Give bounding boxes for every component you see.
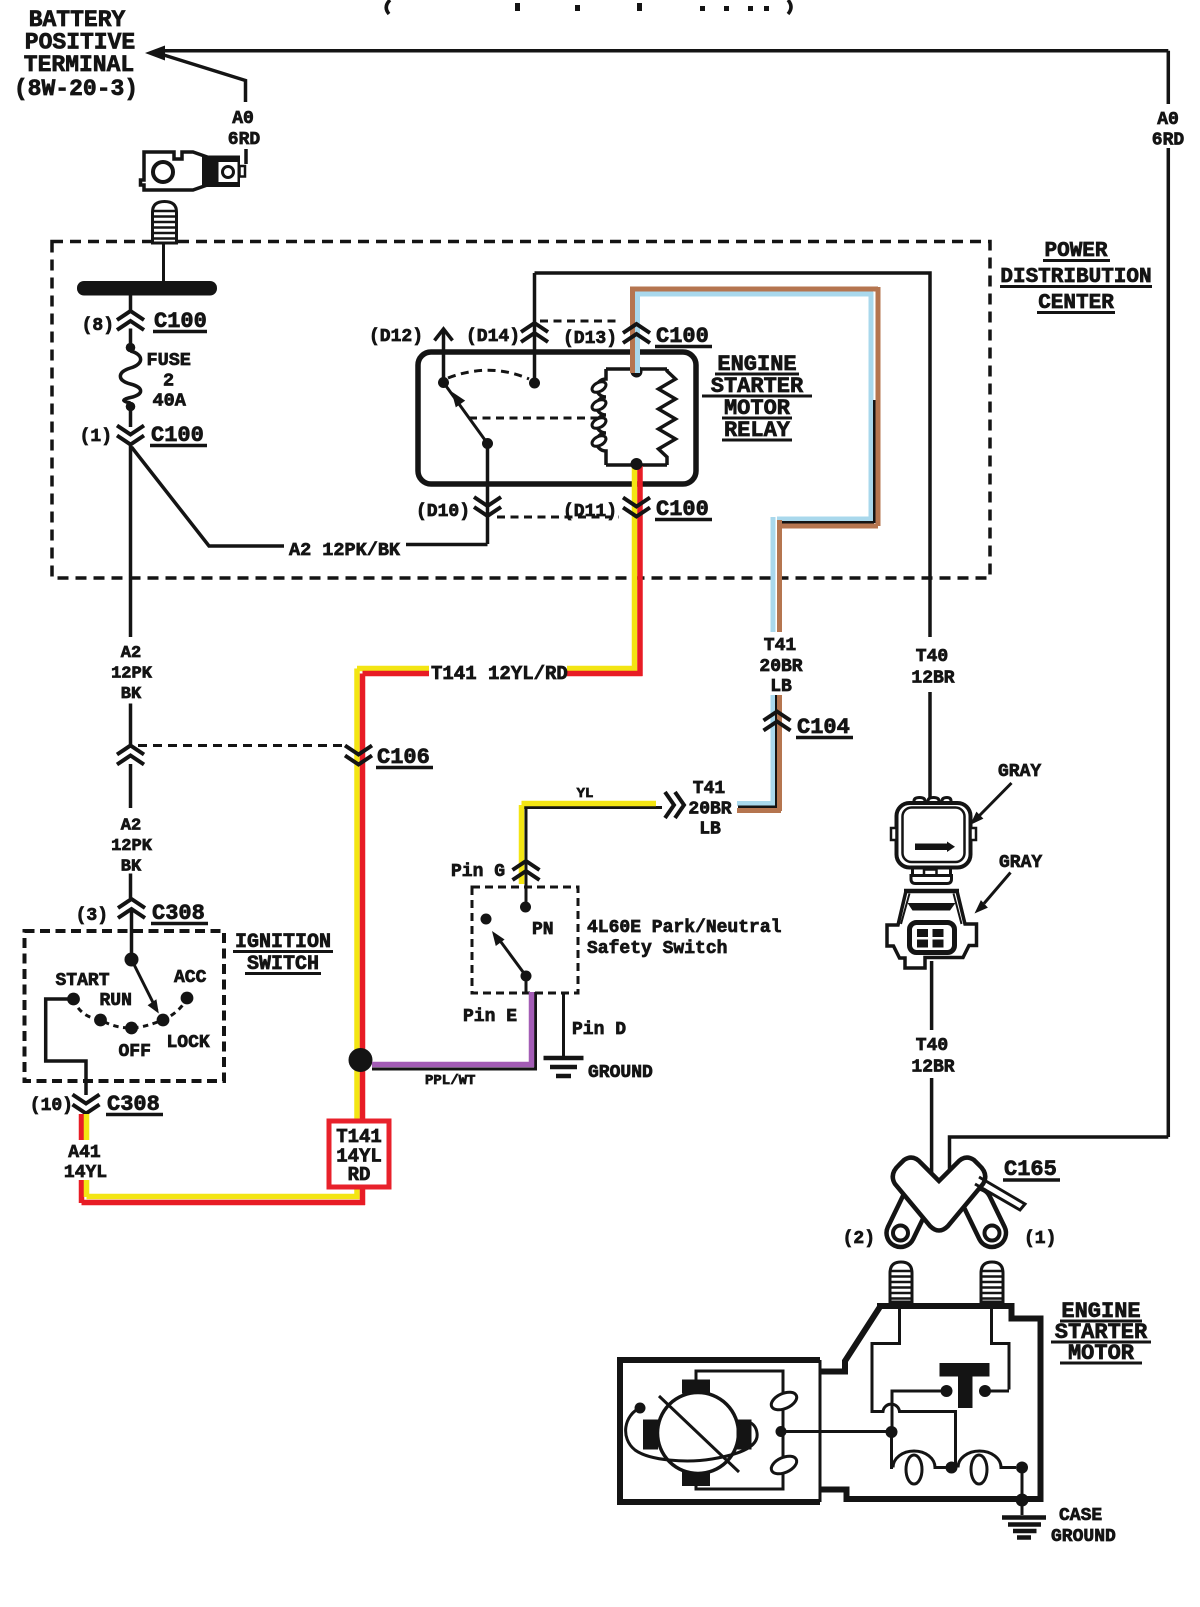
motor loop node — [635, 1403, 646, 1414]
solenoid junction node — [886, 1426, 898, 1438]
wire T141 yellow/red from relay D11 (vertical) — [635, 466, 641, 676]
svg-text:PPL/WT: PPL/WT — [425, 1073, 475, 1089]
starter motor case box — [620, 1360, 820, 1502]
wire yellow down to Pin G — [525, 808, 528, 888]
relay coil top node — [631, 366, 643, 378]
label T40 12BR upper — [911, 647, 954, 689]
dashed link D10-D11 — [497, 516, 619, 519]
relay pin D11: chevrons + labels — [623, 498, 650, 517]
svg-text:(D13): (D13) — [563, 329, 617, 349]
svg-text:2: 2 — [163, 371, 174, 392]
wire Pin D — [562, 993, 565, 1056]
junction node T141/PPL — [349, 1048, 373, 1072]
dashed arc D12 to D14 — [448, 370, 529, 379]
relay switch: D12 node, arm, D10 node — [438, 377, 449, 388]
wire bus to C100(8) — [129, 296, 133, 344]
relay coil bottom node — [631, 458, 643, 470]
title fragment cut off at top — [386, 0, 791, 14]
svg-text:12BR: 12BR — [911, 1058, 954, 1078]
svg-text:T40: T40 — [916, 647, 948, 667]
battery positive terminal label — [14, 7, 138, 102]
ignition dashed position arc — [74, 998, 188, 1028]
power distribution center dashed box — [52, 242, 990, 579]
svg-text:(D10): (D10) — [416, 502, 470, 522]
fuse 2 40A — [126, 343, 136, 353]
wire left contact down — [892, 1391, 947, 1432]
svg-text:6RD: 6RD — [1152, 131, 1185, 151]
svg-text:(D11): (D11) — [563, 502, 617, 522]
label ENGINE STARTER MOTOR — [1055, 1299, 1148, 1366]
svg-text:LOCK: LOCK — [167, 1033, 210, 1053]
wire A0 right vertical — [1167, 51, 1171, 1137]
ground symbol Pin D — [544, 1058, 584, 1076]
svg-text:PN: PN — [532, 920, 554, 940]
label A41 14YL — [64, 1143, 107, 1183]
motor output node — [776, 1426, 787, 1437]
relay pin D10: chevrons + label — [486, 444, 490, 544]
wire A0 right leg into C165 — [950, 1137, 1169, 1176]
svg-text:BK: BK — [121, 858, 142, 877]
wire into PN switch — [525, 879, 528, 907]
svg-text:A41: A41 — [68, 1143, 101, 1163]
motor diagonal — [659, 1396, 739, 1472]
PN top node — [520, 902, 531, 913]
park/neutral switch dashed box — [472, 887, 578, 993]
threaded stud below terminal — [153, 202, 177, 244]
svg-text:T141 12YL/RD: T141 12YL/RD — [431, 663, 568, 685]
solenoid inner contour right — [992, 1309, 1010, 1390]
C165 ring holes — [893, 1226, 908, 1241]
solenoid outline — [821, 1306, 881, 1372]
solenoid coils — [892, 1432, 894, 1468]
ignition switch label — [235, 931, 331, 976]
wire Pin E purple overlay — [372, 992, 532, 1065]
label A2 12PK BK (lower) — [111, 817, 153, 877]
svg-text:GROUND: GROUND — [1051, 1527, 1116, 1547]
wire D14 to T40 top run — [535, 273, 931, 798]
C165 connector body — [893, 1158, 986, 1231]
arrow GRAY upper — [979, 783, 1012, 816]
connector C308 (10) — [73, 1095, 100, 1114]
connector on A2 wire (mate of C106) — [117, 746, 144, 765]
ignition switch wire into box — [130, 909, 134, 960]
relay coil + resistor box — [597, 369, 676, 465]
ignition position labels — [56, 968, 210, 1062]
wire A41 yellow/red below C308 — [82, 1114, 87, 1203]
relay pin D12: wire and arrow — [442, 332, 446, 383]
motor loop wire — [626, 1408, 758, 1461]
motor armature circle — [658, 1393, 739, 1474]
svg-text:Safety Switch: Safety Switch — [587, 939, 727, 959]
wire T141 vertical down to red box — [82, 669, 366, 1206]
svg-text:(D14): (D14) — [466, 327, 520, 347]
svg-text:(D12): (D12) — [369, 327, 423, 347]
svg-text:(8): (8) — [82, 316, 114, 336]
label T40 12BR lower — [911, 1036, 954, 1078]
dashed link A2 to C106 — [138, 744, 346, 747]
wire A2 diagonal branch — [132, 447, 488, 546]
wire right contact to wall — [985, 1390, 1009, 1393]
ignition switch pivot node — [125, 953, 139, 967]
node A0 6RD right label — [1152, 110, 1185, 151]
svg-text:START: START — [56, 971, 110, 991]
solenoid contact nodes — [941, 1385, 953, 1397]
svg-text:A2 12PK/BK: A2 12PK/BK — [289, 540, 401, 561]
svg-text:GRAY: GRAY — [998, 762, 1041, 782]
ignition position nodes START RUN OFF LOCK ACC — [67, 993, 80, 1006]
svg-text:GRAY: GRAY — [999, 853, 1042, 873]
wire A0 top horizontal — [163, 49, 1168, 53]
ignition switch arm with arrow — [132, 960, 158, 1011]
svg-text:20BR: 20BR — [688, 800, 731, 820]
starter stud left — [890, 1262, 912, 1302]
wire coil to case — [1021, 1468, 1024, 1499]
arrow GRAY lower — [984, 873, 1011, 904]
svg-text:(3): (3) — [76, 906, 108, 926]
ignition switch dashed box — [25, 931, 225, 1081]
case ground symbol — [1002, 1518, 1046, 1538]
PDC label — [1000, 240, 1151, 315]
motor brushes — [643, 1380, 752, 1487]
svg-text:(2): (2) — [843, 1229, 875, 1249]
solenoid T contact — [940, 1363, 990, 1377]
svg-text:A0: A0 — [232, 109, 254, 129]
svg-text:CASE: CASE — [1059, 1506, 1102, 1526]
relay pin D14: wire, chevrons, label — [533, 273, 537, 383]
wire START to C308(10) — [46, 999, 86, 1095]
connector C308 (3) — [118, 899, 145, 918]
PN switch arm — [481, 914, 492, 925]
solenoid inner contour left — [872, 1309, 956, 1466]
svg-text:T41: T41 — [693, 779, 726, 799]
svg-text:RD: RD — [348, 1164, 371, 1186]
svg-text:(8W-20-3): (8W-20-3) — [14, 76, 138, 102]
red highlight box T141 14YL RD — [329, 1121, 389, 1187]
svg-text:YL: YL — [577, 786, 594, 802]
wire A2 left vertical — [129, 445, 133, 900]
svg-text:RUN: RUN — [100, 991, 132, 1011]
arrowhead at battery positive — [145, 46, 165, 61]
svg-text:GROUND: GROUND — [588, 1063, 653, 1083]
svg-text:A0: A0 — [1157, 110, 1179, 130]
wire T40 into upper gray connector — [930, 798, 934, 803]
connector C104 — [764, 712, 791, 731]
svg-text:40A: 40A — [153, 391, 187, 412]
wire Pin E black — [372, 976, 536, 1069]
svg-text:T40: T40 — [916, 1036, 948, 1056]
battery terminal connector icon — [141, 152, 246, 190]
svg-text:20BR: 20BR — [759, 657, 802, 677]
svg-text:A2: A2 — [121, 817, 141, 836]
relay box — [418, 352, 696, 484]
case node — [1016, 1494, 1029, 1507]
svg-text:Pin E: Pin E — [463, 1007, 517, 1027]
lower gray connector (crank position sensor) — [887, 891, 977, 968]
svg-text:6RD: 6RD — [228, 130, 261, 150]
svg-text:12BR: 12BR — [911, 669, 954, 689]
wire diagonal battery to terminal — [159, 54, 246, 165]
relay node D14 — [529, 378, 540, 389]
motor inner frame — [696, 1371, 783, 1489]
node A0 6RD left label — [228, 109, 261, 150]
svg-text:12PK: 12PK — [111, 837, 153, 856]
label T41 20BR LB lower — [688, 779, 731, 840]
upper gray connector (cam position sensor) — [891, 798, 976, 884]
connector C106 over wire — [345, 746, 372, 765]
wire case to ground — [1021, 1500, 1024, 1515]
C165 pin — [975, 1177, 1025, 1210]
dashed link D14-D13 — [540, 320, 617, 323]
wire stud to bus bar — [162, 243, 165, 281]
label A2 12PK BK (upper) — [111, 644, 153, 704]
svg-text:4L60E Park/Neutral: 4L60E Park/Neutral — [587, 918, 782, 938]
svg-text:OFF: OFF — [119, 1042, 151, 1062]
svg-text:Pin D: Pin D — [572, 1020, 626, 1040]
bus bar — [77, 281, 217, 296]
D13 chevron over colored wire — [623, 324, 650, 343]
label T41 20BR LB upper — [759, 636, 802, 697]
wire T41 brown/blue: relay to C104 to T41 label — [630, 287, 878, 811]
svg-text:LB: LB — [770, 677, 792, 697]
svg-text:(1): (1) — [1024, 1229, 1056, 1249]
svg-text:(1): (1) — [80, 427, 112, 447]
wire motor to solenoid — [781, 1430, 892, 1433]
svg-text:LB: LB — [699, 820, 721, 840]
wire YL yellow horizontal to T41 connector — [521, 806, 662, 809]
svg-text:14YL: 14YL — [64, 1163, 107, 1183]
svg-text:TERMINAL: TERMINAL — [24, 52, 134, 78]
svg-text:T41: T41 — [764, 636, 797, 656]
connector C100 (1) — [129, 411, 133, 427]
svg-text:FUSE: FUSE — [147, 350, 191, 371]
svg-text:A2: A2 — [121, 644, 141, 663]
svg-text:BK: BK — [121, 685, 142, 704]
svg-text:Pin G: Pin G — [451, 862, 505, 882]
wire T40 below gray connector — [930, 961, 934, 1176]
svg-text:12PK: 12PK — [111, 665, 153, 684]
svg-text:(10): (10) — [30, 1096, 73, 1116]
field coil loops on frame — [769, 1389, 800, 1478]
svg-text:ACC: ACC — [174, 968, 207, 988]
dashed link arm to coil — [469, 417, 604, 420]
starter stud right — [981, 1262, 1003, 1302]
C165 ring terminal (2) — [882, 1184, 1011, 1252]
connector T41 (half, pointing right) — [665, 792, 684, 818]
relay label ENGINE STARTER MOTOR RELAY — [711, 352, 804, 443]
connector Pin G — [513, 861, 540, 880]
wire T141 12YL/RD horizontal — [357, 669, 643, 674]
connector C100 (8) — [117, 311, 144, 330]
